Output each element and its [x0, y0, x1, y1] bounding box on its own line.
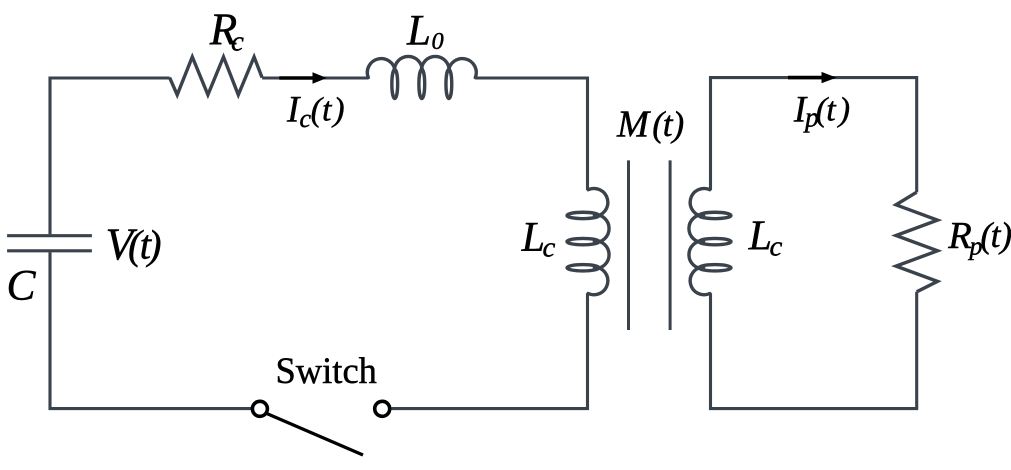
- svg-text:c: c: [770, 231, 783, 263]
- svg-text:0: 0: [432, 28, 444, 55]
- svg-text:): ): [331, 92, 344, 129]
- svg-text:c: c: [231, 25, 244, 57]
- svg-text:R: R: [947, 215, 972, 257]
- svg-text:Switch: Switch: [276, 350, 377, 391]
- svg-text:c: c: [543, 231, 556, 263]
- svg-text:M: M: [616, 104, 651, 146]
- svg-text:L: L: [406, 8, 431, 55]
- svg-text:C: C: [7, 262, 37, 310]
- svg-text:): ): [670, 104, 684, 144]
- svg-text:): ): [837, 92, 850, 129]
- svg-text:t: t: [826, 92, 837, 129]
- svg-text:L: L: [748, 214, 772, 260]
- svg-text:): ): [146, 222, 162, 268]
- svg-text:t: t: [322, 92, 333, 129]
- svg-text:): ): [998, 215, 1011, 255]
- svg-text:L: L: [521, 215, 545, 261]
